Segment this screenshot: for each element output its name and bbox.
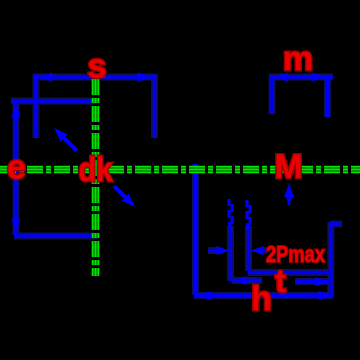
wire: 2Pmax left arrow shaft (208, 249, 218, 252)
arrowhead: 2Pmax right pointing left (251, 246, 264, 255)
arrowhead: h left (196, 291, 211, 300)
arrowhead: e up (12, 102, 21, 117)
arrow: diagonal e arrow lower-right (114, 186, 135, 207)
wire: s dimension line (34, 75, 154, 78)
wire: thread crest line 1 lower part (229, 226, 232, 281)
wire: left vertical extension of h dimension (194, 164, 197, 295)
wire halo layer (11, 74, 342, 297)
arrow: diagonal e arrow upper-left (54, 128, 77, 151)
arrowhead: h right (319, 291, 334, 300)
wire: s left extension leg (34, 74, 37, 138)
svg-text:dk: dk (79, 151, 113, 189)
centerline: horizontal green dash-dot band (0, 167, 360, 173)
thread crest line 1 zigzag top (229, 199, 232, 228)
arrowhead: M up arrow (284, 184, 294, 198)
wire: m left leg (270, 77, 273, 114)
wire: m right leg (326, 77, 329, 117)
wire: right extension top tick (330, 222, 342, 225)
arrowhead: t left (233, 276, 247, 285)
wire: thread crest line 2 lower part (247, 226, 250, 271)
svg-text:e: e (7, 149, 26, 187)
arrow: M up arrow tail (287, 197, 292, 205)
arrowhead: s left (37, 73, 52, 82)
wire: 2Pmax right arrow shaft (262, 249, 267, 252)
svg-text:s: s (88, 48, 107, 86)
wire: hexagon top flat extension (cross horizontal) (11, 99, 97, 102)
wire: hexagon bottom extension (14, 234, 98, 237)
wire: h dimension line (194, 294, 333, 297)
wire: t dimension line left part (232, 279, 262, 282)
wire: thread line 2 extension to right (248, 271, 331, 274)
thread crest line 2 zigzag top (247, 200, 250, 229)
wire: s right extension leg (153, 74, 156, 138)
svg-text:M: M (274, 148, 302, 186)
arrowhead: e down (12, 219, 21, 234)
svg-text:m: m (283, 40, 313, 78)
arrowhead: m right (312, 73, 326, 82)
svg-text:2Pmax: 2Pmax (266, 241, 325, 267)
svg-text:t: t (275, 263, 286, 299)
wire: m dimension bar (269, 75, 333, 78)
wire: right vertical extension line (329, 222, 332, 297)
arrowhead: 2Pmax left pointing right (217, 246, 230, 255)
wire: e dimension vertical line (14, 103, 17, 235)
arrowhead: t right (316, 277, 330, 286)
centerline: vertical green dash-dot band (93, 79, 99, 276)
svg-text:h: h (251, 280, 272, 318)
arrowhead: m left (274, 73, 288, 82)
arrowhead: s right (138, 73, 153, 82)
wire: t dimension line right part (295, 280, 329, 283)
